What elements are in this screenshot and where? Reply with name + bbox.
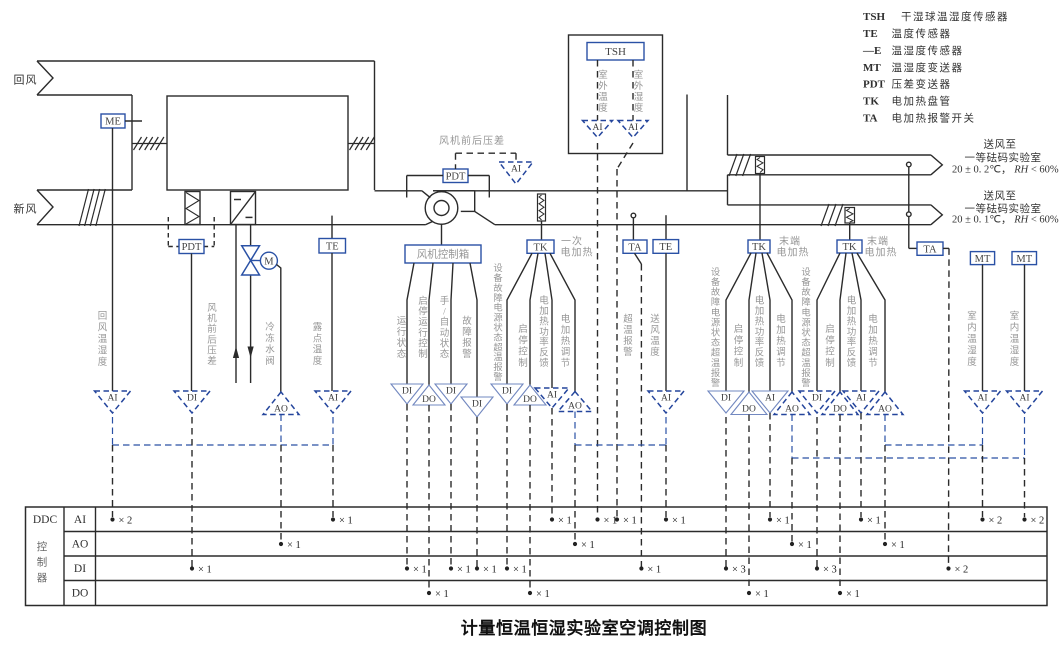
svg-text:× 3: × 3: [823, 564, 837, 575]
svg-text:电: 电: [561, 313, 571, 325]
svg-text:末端: 末端: [779, 235, 801, 248]
svg-text:反: 反: [539, 348, 549, 359]
svg-text:DI: DI: [187, 394, 197, 404]
svg-text:温: 温: [967, 334, 977, 345]
svg-text:× 1: × 1: [891, 540, 905, 551]
svg-text:室: 室: [598, 69, 608, 81]
svg-text:温湿度变送器: 温湿度变送器: [892, 61, 964, 74]
svg-text:障: 障: [462, 326, 472, 338]
svg-text:行: 行: [418, 327, 428, 339]
svg-text:态: 态: [397, 348, 407, 360]
svg-text:报: 报: [623, 335, 633, 347]
svg-text:源: 源: [711, 317, 720, 328]
svg-text:运: 运: [397, 316, 407, 327]
svg-text:温度传感器: 温度传感器: [892, 27, 952, 40]
svg-text:节: 节: [561, 358, 571, 369]
svg-text:× 1: × 1: [647, 564, 661, 575]
svg-text:× 1: × 1: [623, 515, 637, 526]
svg-text:馈: 馈: [755, 357, 765, 369]
svg-text:调: 调: [776, 347, 786, 358]
svg-text:停: 停: [825, 334, 835, 346]
svg-text:TSH: TSH: [605, 46, 626, 58]
svg-text:× 1: × 1: [846, 589, 860, 600]
svg-text:温: 温: [313, 345, 323, 356]
svg-text:AI: AI: [74, 514, 86, 526]
svg-text:手: 手: [440, 295, 450, 307]
svg-text:节: 节: [776, 358, 786, 369]
svg-text:× 1: × 1: [867, 515, 881, 526]
svg-text:× 1: × 1: [287, 540, 301, 551]
svg-text:状: 状: [801, 327, 811, 339]
svg-text:馈: 馈: [539, 357, 549, 369]
svg-text:露: 露: [313, 322, 323, 333]
svg-text:× 1: × 1: [457, 564, 471, 575]
svg-text:热: 热: [776, 335, 786, 347]
svg-text:自: 自: [440, 316, 450, 328]
svg-text:风机控制箱: 风机控制箱: [417, 248, 470, 261]
svg-text:× 1: × 1: [513, 564, 527, 575]
svg-text:PDT: PDT: [863, 79, 886, 91]
svg-text:警: 警: [801, 377, 810, 389]
svg-text:制: 制: [418, 348, 428, 360]
svg-text:机: 机: [207, 313, 217, 325]
svg-text:回风: 回风: [14, 74, 38, 87]
svg-text:TE: TE: [326, 241, 339, 252]
svg-text:度: 度: [650, 346, 660, 358]
svg-text:障: 障: [493, 292, 502, 304]
svg-text:停: 停: [418, 306, 428, 318]
svg-text:× 1: × 1: [798, 540, 812, 551]
svg-text:PDT: PDT: [446, 171, 466, 182]
svg-text:启: 启: [418, 295, 428, 307]
svg-text:故: 故: [711, 286, 720, 298]
svg-text:一等砝码实验室: 一等砝码实验室: [965, 151, 1042, 164]
svg-text:器: 器: [37, 572, 48, 584]
svg-text:率: 率: [755, 336, 765, 348]
svg-text:DI: DI: [812, 394, 822, 404]
svg-text:室: 室: [967, 310, 977, 322]
svg-text:运: 运: [418, 317, 428, 328]
svg-text:率: 率: [539, 336, 549, 348]
svg-text:报: 报: [801, 367, 810, 379]
svg-text:反: 反: [847, 348, 857, 359]
svg-text:× 1: × 1: [581, 540, 595, 551]
svg-text:AI: AI: [592, 123, 602, 133]
svg-text:DI: DI: [74, 563, 86, 575]
svg-text:TA: TA: [628, 242, 642, 253]
svg-text:调: 调: [868, 347, 878, 358]
svg-text:送风至: 送风至: [984, 189, 1017, 202]
svg-text:电: 电: [539, 295, 549, 307]
svg-text:度: 度: [967, 356, 977, 368]
svg-text:PDT: PDT: [182, 242, 202, 253]
svg-text:DO: DO: [422, 395, 436, 405]
svg-text:电加热报警开关: 电加热报警开关: [892, 111, 976, 124]
svg-text:热: 热: [539, 315, 549, 327]
svg-text:× 2: × 2: [955, 564, 969, 575]
svg-text:外: 外: [634, 80, 644, 92]
svg-text:故: 故: [801, 286, 810, 298]
svg-text:度: 度: [98, 356, 108, 368]
svg-text:20 ± 0. 1℃， RH < 60%: 20 ± 0. 1℃， RH < 60%: [952, 215, 1059, 226]
svg-text:电加热: 电加热: [777, 246, 810, 259]
svg-text:温湿度传感器: 温湿度传感器: [892, 44, 964, 57]
svg-text:状: 状: [440, 337, 450, 349]
svg-text:湿: 湿: [1010, 346, 1020, 357]
svg-text:制: 制: [734, 357, 744, 369]
svg-text:TA: TA: [923, 244, 937, 255]
svg-text:AO: AO: [878, 405, 892, 415]
svg-text:加: 加: [561, 325, 571, 336]
svg-text:超: 超: [493, 341, 502, 353]
svg-text:送风至: 送风至: [984, 138, 1017, 151]
svg-text:设: 设: [711, 267, 720, 278]
svg-text:湿: 湿: [98, 346, 108, 357]
svg-text:DDC: DDC: [33, 514, 58, 526]
svg-text:态: 态: [493, 331, 502, 343]
svg-text:AI: AI: [328, 394, 338, 404]
svg-text:电加热: 电加热: [865, 246, 898, 259]
svg-text:MT: MT: [1016, 254, 1032, 265]
svg-text:电: 电: [755, 295, 765, 307]
svg-text:度: 度: [634, 102, 644, 114]
svg-text:TK: TK: [534, 242, 548, 253]
svg-text:TE: TE: [659, 242, 672, 253]
svg-text:AI: AI: [511, 165, 521, 175]
svg-text:障: 障: [801, 296, 810, 308]
svg-text:冻: 冻: [265, 332, 275, 344]
svg-text:温: 温: [711, 358, 720, 369]
svg-text:× 1: × 1: [536, 589, 550, 600]
svg-text:热: 热: [847, 315, 857, 327]
svg-text:TK: TK: [843, 242, 857, 253]
svg-text:DO: DO: [523, 395, 537, 405]
svg-text:反: 反: [755, 348, 765, 359]
svg-text:AO: AO: [785, 405, 799, 415]
svg-text:热: 热: [561, 335, 571, 347]
svg-text:备: 备: [493, 272, 503, 284]
svg-text:制: 制: [825, 357, 835, 369]
svg-text:温: 温: [650, 336, 660, 347]
svg-text:一等砝码实验室: 一等砝码实验室: [965, 202, 1042, 215]
svg-text:制: 制: [37, 556, 48, 569]
svg-text:障: 障: [711, 296, 720, 308]
svg-text:控: 控: [418, 337, 428, 349]
svg-text:源: 源: [801, 317, 810, 328]
svg-text:备: 备: [801, 276, 811, 288]
svg-text:× 3: × 3: [732, 564, 746, 575]
svg-text:AI: AI: [977, 394, 987, 404]
svg-text:× 1: × 1: [672, 515, 686, 526]
svg-text:室: 室: [634, 69, 644, 81]
svg-text:× 1: × 1: [339, 515, 353, 526]
svg-text:水: 水: [265, 344, 275, 356]
svg-text:停: 停: [734, 334, 744, 346]
svg-text:湿: 湿: [967, 346, 977, 357]
svg-text:DO: DO: [72, 588, 89, 600]
svg-text:启: 启: [825, 323, 835, 335]
svg-text:DI: DI: [502, 387, 512, 397]
svg-text:度: 度: [313, 355, 323, 367]
svg-text:风机前后压差: 风机前后压差: [439, 134, 505, 147]
svg-text:温: 温: [801, 358, 810, 369]
svg-text:风: 风: [650, 325, 660, 336]
svg-text:/: /: [443, 308, 446, 318]
svg-text:风: 风: [207, 303, 217, 314]
svg-text:DI: DI: [446, 387, 456, 397]
svg-text:M: M: [264, 257, 274, 268]
svg-text:源: 源: [493, 313, 502, 324]
svg-text:度: 度: [598, 102, 608, 114]
svg-text:电: 电: [776, 313, 786, 325]
svg-text:动: 动: [440, 328, 450, 339]
svg-text:电加热: 电加热: [561, 246, 594, 259]
svg-text:回: 回: [98, 311, 108, 322]
svg-text:电: 电: [801, 306, 810, 318]
svg-text:× 2: × 2: [1031, 515, 1045, 526]
svg-text:× 2: × 2: [989, 515, 1003, 526]
svg-text:加: 加: [755, 306, 765, 317]
svg-text:故: 故: [462, 315, 472, 327]
svg-text:20 ± 0. 2℃， RH < 60%: 20 ± 0. 2℃， RH < 60%: [952, 165, 1059, 176]
svg-text:态: 态: [440, 348, 450, 360]
svg-text:超: 超: [801, 347, 810, 359]
svg-text:热: 热: [755, 315, 765, 327]
svg-text:TA: TA: [863, 112, 878, 124]
svg-text:热: 热: [868, 335, 878, 347]
svg-text:TK: TK: [752, 242, 766, 253]
svg-text:行: 行: [397, 326, 407, 338]
svg-text:× 1: × 1: [604, 515, 618, 526]
svg-text:AI: AI: [765, 394, 775, 404]
svg-text:故: 故: [493, 282, 502, 294]
svg-text:警: 警: [462, 348, 472, 360]
svg-text:AI: AI: [661, 394, 671, 404]
svg-text:温: 温: [623, 325, 633, 336]
svg-text:× 1: × 1: [776, 515, 790, 526]
svg-text:电加热盘管: 电加热盘管: [892, 94, 952, 107]
svg-text:警: 警: [711, 377, 720, 389]
svg-text:湿: 湿: [634, 92, 644, 103]
svg-text:TSH: TSH: [863, 11, 885, 23]
svg-text:电: 电: [847, 295, 857, 307]
svg-text:功: 功: [755, 327, 765, 338]
svg-text:调: 调: [561, 347, 571, 358]
svg-text:报: 报: [462, 337, 472, 349]
svg-text:超: 超: [711, 347, 720, 359]
svg-text:加: 加: [539, 306, 549, 317]
svg-text:× 1: × 1: [413, 564, 427, 575]
svg-text:计量恒温恒湿实验室空调控制图: 计量恒温恒湿实验室空调控制图: [461, 618, 707, 638]
svg-text:AO: AO: [568, 402, 582, 412]
svg-text:× 1: × 1: [435, 589, 449, 600]
svg-text:报: 报: [711, 367, 720, 379]
svg-text:—E: —E: [862, 45, 881, 57]
svg-text:加: 加: [868, 325, 878, 336]
svg-text:MT: MT: [975, 254, 991, 265]
svg-text:备: 备: [711, 276, 721, 288]
svg-text:DI: DI: [402, 387, 412, 397]
svg-text:内: 内: [1010, 322, 1020, 334]
svg-text:警: 警: [493, 371, 502, 383]
svg-text:态: 态: [711, 337, 720, 349]
svg-text:内: 内: [967, 322, 977, 334]
svg-text:MT: MT: [863, 62, 881, 74]
svg-text:警: 警: [623, 346, 633, 358]
svg-text:冷: 冷: [265, 321, 275, 333]
svg-text:差: 差: [207, 355, 217, 367]
svg-text:态: 态: [801, 337, 810, 349]
svg-text:功: 功: [539, 327, 549, 338]
svg-text:超: 超: [623, 313, 633, 325]
svg-text:状: 状: [397, 337, 407, 349]
svg-text:压差变送器: 压差变送器: [892, 78, 952, 91]
svg-text:AI: AI: [107, 394, 117, 404]
svg-text:设: 设: [801, 267, 810, 278]
svg-text:DI: DI: [721, 394, 731, 404]
svg-text:阀: 阀: [265, 355, 275, 367]
svg-text:× 2: × 2: [119, 515, 133, 526]
svg-text:TE: TE: [863, 28, 878, 40]
svg-text:制: 制: [518, 357, 528, 369]
svg-text:室: 室: [1010, 310, 1020, 322]
svg-text:干湿球温湿度传感器: 干湿球温湿度传感器: [901, 10, 1009, 23]
svg-text:新风: 新风: [14, 202, 38, 216]
svg-text:一次: 一次: [561, 235, 583, 248]
svg-text:温: 温: [598, 92, 608, 103]
svg-text:启: 启: [734, 323, 744, 335]
svg-text:状: 状: [493, 322, 503, 334]
svg-text:后: 后: [207, 335, 217, 346]
svg-text:AI: AI: [547, 391, 557, 401]
svg-text:功: 功: [847, 327, 857, 338]
svg-text:报: 报: [493, 361, 502, 373]
svg-text:温: 温: [493, 352, 502, 363]
svg-text:前: 前: [207, 323, 217, 335]
svg-text:控: 控: [734, 346, 744, 358]
svg-text:AI: AI: [1019, 394, 1029, 404]
svg-text:外: 外: [598, 80, 608, 92]
svg-text:AO: AO: [274, 405, 288, 415]
svg-text:温: 温: [1010, 334, 1020, 345]
svg-text:馈: 馈: [847, 357, 857, 369]
svg-text:电: 电: [711, 306, 720, 318]
svg-text:加: 加: [847, 306, 857, 317]
svg-text:控: 控: [825, 346, 835, 358]
svg-text:电: 电: [493, 302, 502, 314]
svg-text:启: 启: [518, 323, 528, 335]
svg-text:风: 风: [98, 323, 108, 334]
svg-text:压: 压: [207, 345, 217, 356]
svg-text:末端: 末端: [867, 235, 889, 248]
svg-text:AO: AO: [72, 539, 89, 551]
svg-text:ME: ME: [105, 117, 121, 128]
svg-text:电: 电: [868, 313, 878, 325]
svg-text:度: 度: [1010, 356, 1020, 368]
svg-text:× 1: × 1: [755, 589, 769, 600]
svg-text:率: 率: [847, 336, 857, 348]
svg-text:状: 状: [711, 327, 721, 339]
svg-text:× 1: × 1: [558, 515, 572, 526]
svg-text:× 1: × 1: [198, 564, 212, 575]
svg-text:× 1: × 1: [483, 564, 497, 575]
svg-text:温: 温: [98, 334, 108, 345]
svg-text:DI: DI: [472, 400, 482, 410]
svg-text:加: 加: [776, 325, 786, 336]
svg-text:控: 控: [518, 346, 528, 358]
svg-text:停: 停: [518, 334, 528, 346]
svg-text:TK: TK: [863, 95, 879, 107]
svg-text:设: 设: [493, 263, 502, 274]
svg-text:控: 控: [37, 540, 48, 553]
svg-text:AI: AI: [856, 394, 866, 404]
svg-text:AI: AI: [628, 123, 638, 133]
svg-text:送: 送: [650, 313, 660, 325]
svg-text:节: 节: [868, 358, 878, 369]
svg-text:点: 点: [313, 333, 323, 344]
svg-text:DO: DO: [742, 405, 756, 415]
svg-text:DO: DO: [833, 405, 847, 415]
